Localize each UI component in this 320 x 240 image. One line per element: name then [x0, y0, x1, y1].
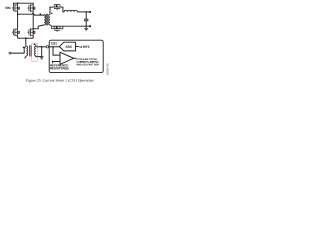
figure id vertical — [107, 63, 109, 75]
pin CS1 circle — [46, 46, 48, 48]
node output bottom junction — [85, 25, 87, 27]
label CS1 — [51, 42, 57, 44]
terminal VIN return — [9, 52, 11, 54]
ADC block — [59, 42, 75, 51]
wire secondary bottom rail — [50, 25, 90, 26]
current transformer CT core — [29, 45, 31, 56]
current transformer CT primary winding — [26, 46, 27, 56]
node top rail junction — [17, 2, 19, 4]
wire Q1 drain — [17, 3, 19, 5]
wire Q3 gate stub — [12, 31, 13, 33]
wire top rail — [14, 3, 34, 5]
wire node A to primary (with hop over node B line) — [18, 13, 45, 15]
wire branch to comparator — [53, 47, 60, 55]
comparator U2 — [60, 52, 74, 64]
CT phase dot secondary — [34, 44, 35, 45]
node burden resistor junction — [41, 46, 43, 48]
wire ADC out — [76, 46, 79, 48]
wire CT primary bottom — [25, 56, 27, 59]
wire primary bottom to node B — [33, 25, 44, 29]
node CS1 branch — [52, 46, 54, 48]
transformer T1 phase dot — [40, 13, 42, 15]
VIN label — [5, 7, 10, 9]
node A vertical wire to Q3 — [17, 14, 19, 29]
node secondary top dot — [51, 13, 52, 14]
label 12 BITS — [79, 46, 89, 48]
transistor SR2 (bottom rectifier) — [52, 26, 63, 32]
node A — [17, 13, 19, 15]
transformer T1 core — [45, 14, 47, 26]
ground output — [84, 26, 88, 31]
transistor Q2 — [29, 4, 35, 12]
terminal VOUT- — [89, 25, 91, 27]
wire Q4 gate stub — [28, 31, 29, 33]
label comparator output — [76, 58, 96, 60]
ground — [40, 57, 44, 59]
wire bridge return down to CT — [25, 38, 27, 46]
wire reference input — [53, 61, 60, 63]
current transformer CT secondary winding — [35, 46, 36, 56]
node bridge return junction — [25, 37, 27, 39]
transistor Q3 — [13, 28, 19, 36]
wire Q1 source to node A — [17, 11, 19, 14]
wire SR1 to inductor — [61, 7, 64, 12]
node B junction — [32, 28, 34, 30]
node B vertical wire — [32, 11, 34, 28]
wire comparator out — [74, 57, 77, 59]
red dashed box around CT secondary — [32, 43, 38, 61]
transistor Q1 — [13, 4, 19, 12]
transformer T1 secondary winding — [49, 15, 50, 25]
wire CT secondary bottom to ground — [36, 55, 42, 58]
transformer T1 primary winding — [44, 15, 45, 25]
wire CT secondary to CS1 pin — [36, 46, 46, 48]
wire burden to ground — [41, 47, 43, 57]
wire Q1 gate stub — [12, 7, 13, 9]
IC block ADP1051 — [49, 40, 103, 72]
transistor SR1 (top rectifier) — [53, 5, 61, 11]
label reference register — [50, 64, 68, 66]
capacitor COUT — [85, 12, 87, 19]
CT phase dot primary — [23, 47, 24, 48]
wire return terminal to CT — [11, 46, 26, 53]
node output top junction — [85, 11, 87, 13]
inductor L1 — [64, 10, 77, 12]
caption — [26, 79, 94, 82]
wire CS1 inside — [49, 46, 60, 48]
wire Q2 gate stub — [28, 7, 29, 9]
wire bottom rail of bridge — [17, 35, 19, 38]
transistor Q4 — [29, 28, 35, 36]
wire secondary top to SR1 — [50, 7, 53, 14]
terminal VOUT+ — [89, 11, 91, 13]
wire inductor to output — [77, 11, 90, 13]
